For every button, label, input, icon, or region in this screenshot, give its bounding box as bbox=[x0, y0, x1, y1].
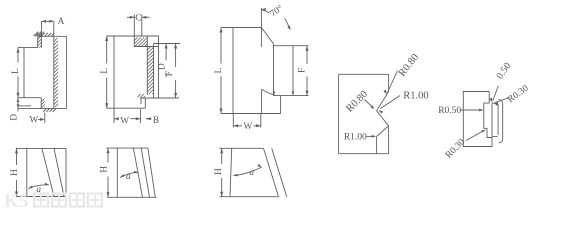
clamp finger hatch bbox=[38, 36, 42, 47]
clamp finger left edge bbox=[37, 36, 39, 47]
dimension B bbox=[146, 117, 151, 120]
bottom notch step bbox=[140, 98, 142, 104]
right edge bbox=[158, 36, 160, 98]
dimension D bbox=[154, 43, 181, 45]
fillet to body bbox=[262, 89, 274, 95]
top edge with extension bbox=[221, 27, 261, 29]
angle a arc bbox=[28, 185, 49, 189]
holder bottom line bbox=[18, 105, 31, 107]
bottom finger hatch bbox=[41, 99, 45, 109]
insert bar bbox=[492, 103, 498, 136]
insert top edge with extension bbox=[274, 45, 309, 47]
bottom edge with extension bbox=[221, 113, 281, 115]
dimension F bbox=[306, 46, 308, 64]
foot right edge bbox=[280, 96, 282, 114]
bottom step edge bbox=[18, 97, 41, 99]
bottom notch hatch bbox=[138, 94, 146, 98]
dimension A bbox=[42, 20, 54, 22]
insert bottom edge with extension bbox=[273, 95, 308, 97]
insert pocket back line bbox=[273, 44, 275, 96]
blade left edge bbox=[53, 21, 55, 108]
svg-text:a: a bbox=[126, 172, 131, 182]
seat surface line bbox=[38, 35, 67, 37]
top clamp block hatch bbox=[134, 38, 147, 47]
V notch bbox=[377, 92, 389, 111]
svg-text:H: H bbox=[99, 166, 109, 173]
top edge with extension bbox=[107, 35, 159, 37]
svg-text:L: L bbox=[11, 68, 21, 74]
svg-text:L: L bbox=[100, 68, 110, 74]
inner vertical edge bbox=[26, 148, 28, 196]
dimension L bbox=[220, 28, 222, 64]
clamp block bottom line bbox=[134, 46, 159, 48]
svg-text:W: W bbox=[244, 122, 253, 132]
slanted edge 2 bbox=[54, 148, 64, 196]
figure 3: parting blade with insert (third) bbox=[214, 3, 308, 132]
top edge with extension bbox=[219, 147, 263, 149]
blade strip hatch bbox=[147, 47, 153, 95]
extension line / clamp finger right edge bbox=[41, 21, 43, 47]
dimension W bbox=[232, 114, 234, 128]
dimension H bbox=[221, 148, 223, 164]
outer rail bbox=[498, 100, 502, 143]
angle a arc bbox=[120, 172, 138, 177]
blade strip right edge bbox=[153, 44, 155, 99]
right slanted edge 1 bbox=[264, 148, 279, 196]
svg-text:W: W bbox=[120, 117, 129, 127]
figure 4: insert nose radius detail (fourth) bbox=[339, 52, 429, 154]
svg-text:F: F bbox=[165, 71, 175, 76]
surface hatch ticks above seat bbox=[35, 33, 54, 36]
svg-text:D: D bbox=[10, 114, 20, 121]
svg-text:H: H bbox=[10, 169, 20, 176]
svg-text:F: F bbox=[297, 68, 307, 73]
angle dimension 70 deg bbox=[260, 8, 262, 47]
outline bbox=[16, 147, 66, 149]
holder left edge bbox=[23, 48, 25, 98]
svg-text:L: L bbox=[214, 67, 224, 73]
step edge with extension bbox=[18, 47, 38, 49]
left edge bbox=[230, 148, 232, 196]
svg-text:W: W bbox=[30, 115, 39, 125]
slanted edge 1 bbox=[133, 148, 142, 197]
bottom figure 3: blade side view (third) bbox=[214, 148, 287, 196]
figure 1: blade holder cross-section (left) bbox=[10, 17, 67, 125]
svg-text:R1.00: R1.00 bbox=[344, 133, 367, 143]
right slanted edge 2 bbox=[272, 148, 287, 196]
bottom figure 2: blade side view (second) bbox=[99, 148, 156, 197]
svg-text:B: B bbox=[153, 116, 159, 126]
svg-text:C: C bbox=[135, 14, 141, 24]
svg-text:R1.00: R1.00 bbox=[403, 91, 428, 102]
top edge with extension bbox=[106, 147, 148, 149]
dimension W bbox=[113, 108, 115, 123]
blade right edge bbox=[66, 36, 68, 108]
bottom figure 1: blade side view with back taper angle bbox=[10, 148, 66, 196]
bottom right edge with extension bbox=[141, 97, 179, 99]
blade strip left edge bbox=[146, 36, 148, 95]
dimension F bbox=[175, 44, 177, 68]
bottom edge with extension bbox=[219, 196, 278, 198]
dimension L line bbox=[17, 48, 19, 63]
holder block outline bbox=[463, 92, 492, 147]
svg-text:D: D bbox=[158, 63, 168, 70]
surface hatch ticks below bottom bbox=[43, 109, 56, 112]
insert right edge bbox=[292, 46, 294, 96]
svg-text:K5: K5 bbox=[4, 191, 28, 210]
svg-text:H: H bbox=[214, 168, 224, 175]
dimension D arrows bbox=[17, 98, 19, 112]
left edge bbox=[116, 148, 118, 197]
figure 5: insert clamping rail detail (fifth) bbox=[438, 61, 531, 161]
left edge bbox=[113, 36, 115, 108]
svg-text:R0.50: R0.50 bbox=[438, 106, 461, 116]
top slanted face bbox=[261, 28, 273, 44]
figure 2: blade holder cross-section (second) bbox=[100, 14, 180, 127]
bottom edge bbox=[18, 107, 66, 109]
dimension H bbox=[107, 148, 109, 162]
watermark bbox=[4, 191, 102, 212]
angle a arc bbox=[234, 167, 262, 176]
clamp block left edge bbox=[133, 36, 135, 47]
svg-text:a: a bbox=[249, 168, 254, 178]
lower right edge bbox=[261, 89, 263, 113]
blade hatch bbox=[54, 38, 58, 107]
bottom edge with extension bbox=[107, 196, 157, 198]
right slanted edge bbox=[148, 148, 155, 197]
body outline bbox=[339, 73, 389, 75]
bottom edge bbox=[107, 107, 146, 109]
svg-text:A: A bbox=[58, 17, 65, 27]
slanted edge 2 bbox=[141, 148, 149, 197]
inner edge bbox=[376, 137, 378, 154]
inner chamfer bbox=[377, 126, 389, 137]
left edge bbox=[232, 28, 234, 114]
dimension L line bbox=[106, 36, 108, 64]
slanted edge 1 bbox=[42, 148, 54, 196]
bottom finger edge bbox=[40, 98, 42, 109]
dimension H bbox=[16, 148, 18, 165]
